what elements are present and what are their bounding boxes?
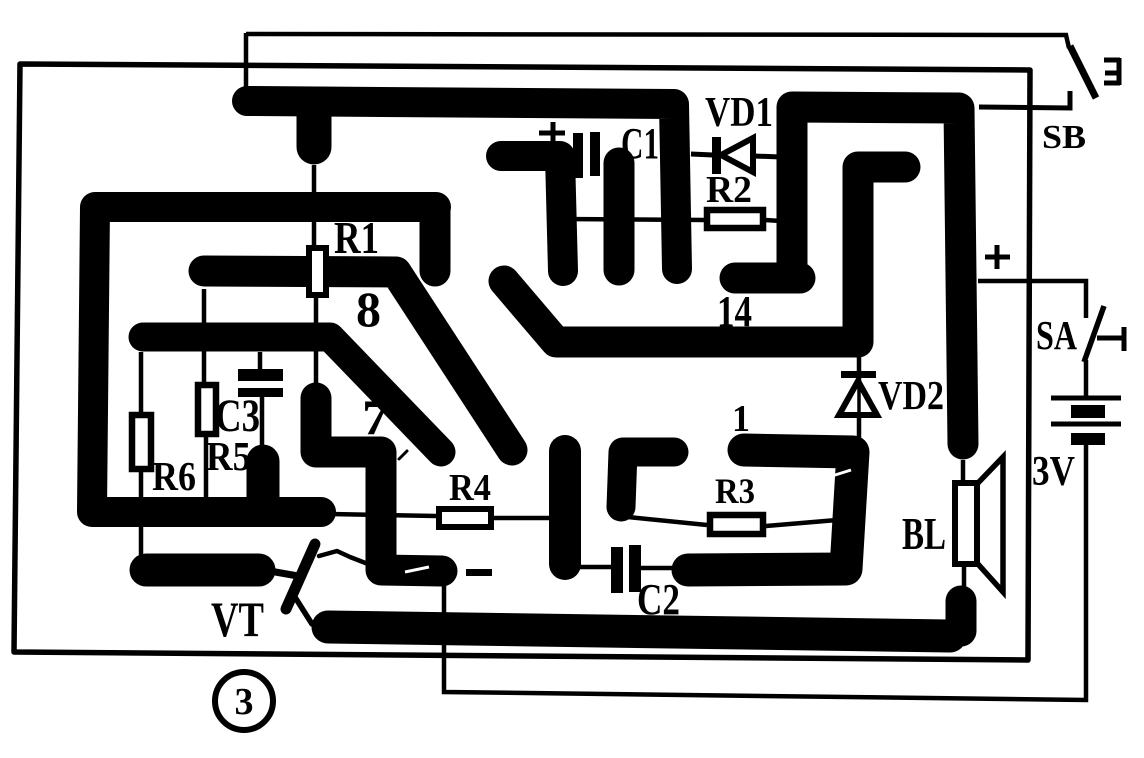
wire: long top wire to SB bbox=[246, 34, 1069, 48]
trace: pad 14 (left arm of n-shape leg) bbox=[735, 263, 800, 294]
figure number circle 3 bbox=[215, 672, 273, 730]
switch SA blade bbox=[1084, 306, 1104, 362]
capacitor C1 bbox=[573, 133, 583, 178]
svg-text:R6: R6 bbox=[152, 453, 196, 499]
svg-text:3: 3 bbox=[235, 681, 254, 723]
resistor R4 bbox=[439, 509, 491, 527]
wire: speaker BL bottom lead bbox=[962, 563, 967, 590]
trace: stub pad under top bus (R1 top pad) bbox=[297, 104, 332, 147]
diode VD2 bbox=[839, 371, 877, 415]
wire: C2 right lead bbox=[640, 566, 673, 571]
svg-text:C2: C2 bbox=[637, 575, 680, 624]
wire: R3 right lead bbox=[766, 520, 837, 526]
wire: R4 right lead bbox=[494, 516, 552, 521]
trace: C3 bottom stub pad bbox=[247, 461, 280, 504]
wire: VD1 left lead bbox=[691, 154, 713, 155]
trace: top supply bus with right-angle leg down (to C1 area) bbox=[247, 101, 677, 269]
capacitor C3 bbox=[238, 369, 283, 381]
trace: small L-trace left of pin 1 bbox=[621, 452, 674, 507]
svg-text:SA: SA bbox=[1036, 312, 1077, 358]
wire: VD1 right lead bbox=[754, 156, 781, 157]
trace: lower left pill pad (VT emitter net) bbox=[146, 554, 259, 587]
wire: SA to battery plus bbox=[1084, 360, 1089, 396]
wire: R6 top lead bbox=[139, 352, 144, 413]
wire: R5 top lead bbox=[202, 289, 207, 383]
svg-text:R1: R1 bbox=[334, 213, 379, 263]
wire: C2 left lead bbox=[566, 565, 611, 570]
wire: R1 top lead bbox=[312, 165, 317, 246]
svg-text:R3: R3 bbox=[715, 471, 755, 511]
svg-text:BL: BL bbox=[902, 509, 946, 559]
svg-text:R5: R5 bbox=[206, 433, 251, 479]
wire: speaker BL top lead bbox=[961, 460, 966, 484]
board outline bbox=[14, 64, 1030, 660]
wire: C3 top lead bbox=[258, 352, 263, 370]
resistor R1 bbox=[309, 248, 326, 295]
wire: stub from top bus up bbox=[244, 33, 249, 88]
trace: top-right n-shaped bus and long right vertical trace bbox=[792, 107, 963, 444]
wire: battery minus return to board bbox=[444, 444, 1086, 700]
wire: R1 bottom lead bbox=[314, 298, 319, 383]
wire: plus node to switch SA bbox=[978, 281, 1086, 318]
svg-text:C1: C1 bbox=[621, 119, 659, 168]
wire: R4 left lead bbox=[330, 514, 436, 516]
trace: middle-left bus with diagonal (pin 8 net) bbox=[143, 337, 441, 452]
resistor R2 bbox=[707, 210, 763, 228]
svg-text:R2: R2 bbox=[706, 169, 752, 211]
svg-text:SB: SB bbox=[1042, 119, 1086, 156]
svg-text:VD2: VD2 bbox=[878, 372, 944, 418]
switch SA actuator contact bbox=[1097, 327, 1124, 351]
trace: speaker bottom pad pill bbox=[946, 601, 977, 631]
diode VD1 bbox=[712, 137, 753, 174]
wire: R5 bottom lead bbox=[204, 436, 209, 500]
trace: right leg of R1 bus bbox=[420, 208, 451, 271]
speaker BL bbox=[955, 457, 1003, 592]
trace: big left C-shaped bus (R1 bus, left rail, bottom rail) bbox=[92, 207, 436, 512]
battery GB 3V bbox=[1051, 398, 1121, 445]
svg-text:8: 8 bbox=[356, 281, 381, 337]
trace: horizontal pad pill under R1 merging into second diagonal bbox=[204, 271, 512, 450]
svg-text:3V: 3V bbox=[1032, 449, 1075, 495]
resistor R6 bbox=[132, 415, 151, 469]
svg-text:14: 14 bbox=[717, 287, 752, 336]
trace: small tick mark near diagonal end bbox=[399, 451, 407, 459]
polarity minus mark near VT bbox=[466, 569, 492, 576]
wire: SB lower contact hook to right trace bbox=[979, 91, 1070, 108]
trace: long bottom ground bar bbox=[328, 627, 950, 636]
wire: R2 right lead bbox=[765, 220, 781, 221]
transistor VT bbox=[264, 544, 368, 624]
polarity plus mark near battery bbox=[985, 245, 1010, 269]
svg-text:R4: R4 bbox=[449, 467, 491, 509]
wire: VD2 vertical lead bbox=[857, 356, 862, 441]
trace: Z-shaped trace with pad (VD2 top net) bbox=[504, 167, 905, 342]
wire: R2 left lead bbox=[560, 219, 706, 220]
trace: pin 1 trace down to C2 pad bbox=[688, 450, 853, 570]
wire: C3 bottom lead bbox=[260, 397, 265, 447]
wire: R3 left lead bbox=[628, 517, 707, 525]
switch SB actuator bbox=[1104, 58, 1120, 85]
trace: Z-shaped trace pin 7 (VT collector net) bbox=[316, 398, 442, 571]
svg-text:VD1: VD1 bbox=[705, 90, 773, 136]
capacitor C2 bbox=[611, 547, 623, 593]
svg-text:7: 7 bbox=[362, 389, 389, 445]
svg-text:VT: VT bbox=[211, 591, 264, 647]
polarity plus mark near C1 bbox=[539, 122, 565, 142]
wire: R6 bottom lead bbox=[139, 471, 144, 556]
svg-text:1: 1 bbox=[732, 398, 750, 440]
trace: C1 right pad pill bbox=[604, 163, 635, 270]
trace: middle vertical pill between R4 and C2 bbox=[549, 451, 581, 564]
white scratch artifacts bbox=[405, 567, 429, 572]
resistor R3 bbox=[710, 515, 763, 534]
switch SB blade bbox=[1070, 46, 1096, 98]
trace: C1 left pad with leg down bbox=[501, 156, 563, 271]
resistor R5 bbox=[198, 385, 216, 434]
